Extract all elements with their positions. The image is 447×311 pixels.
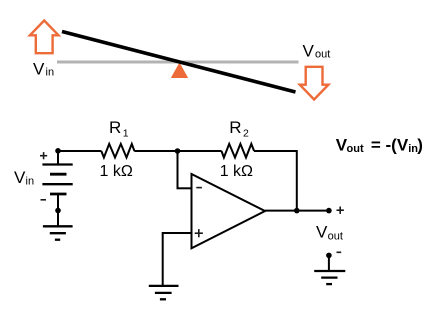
svg-text:1 kΩ: 1 kΩ	[220, 163, 253, 180]
svg-text:2: 2	[243, 127, 249, 139]
svg-text:R: R	[229, 118, 241, 137]
svg-text:in: in	[46, 67, 55, 79]
svg-text:=: =	[371, 135, 381, 154]
svg-text:out: out	[328, 231, 343, 243]
svg-text:V: V	[303, 41, 315, 60]
svg-text:V: V	[14, 168, 26, 187]
svg-text:1: 1	[123, 127, 129, 139]
svg-text:-(V: -(V	[386, 135, 409, 154]
svg-text:out: out	[315, 48, 330, 60]
svg-text:1 kΩ: 1 kΩ	[100, 163, 133, 180]
svg-text:in: in	[26, 176, 35, 188]
svg-text:R: R	[109, 118, 121, 137]
svg-text:out: out	[347, 143, 364, 155]
svg-text:V: V	[316, 222, 328, 241]
svg-text:): )	[417, 135, 423, 154]
svg-text:V: V	[33, 60, 45, 79]
